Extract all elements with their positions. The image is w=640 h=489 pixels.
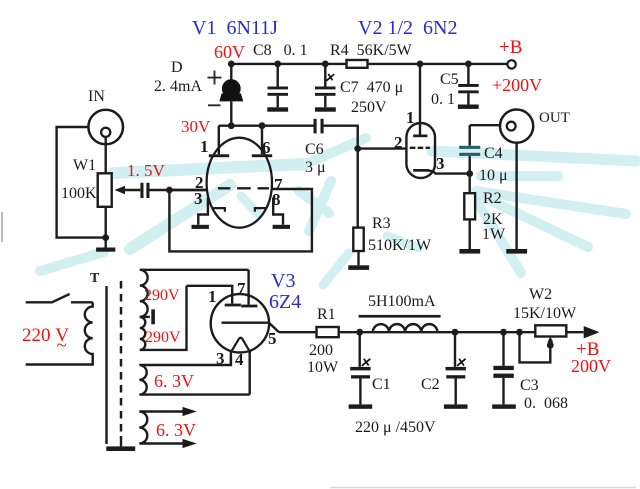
svg-text:R2: R2 (483, 190, 502, 207)
V3 pin 3 lead (230, 351, 232, 365)
svg-text:OUT: OUT (539, 110, 570, 126)
svg-text:200V: 200V (571, 356, 611, 376)
svg-text:3: 3 (436, 154, 445, 173)
svg-text:510K/1W: 510K/1W (368, 237, 432, 254)
capacitor C3 (493, 329, 568, 412)
svg-text:C4: C4 (484, 145, 503, 162)
V2 grid pin 2 dashed (410, 147, 430, 149)
transformer secondary 6.3V first (139, 357, 249, 394)
transformer center tap (140, 316, 150, 318)
svg-text:250V: 250V (351, 99, 387, 116)
svg-text:C7 470 μ: C7 470 μ (340, 79, 403, 96)
V2 anode pin 1 (406, 61, 427, 138)
svg-text:0. 1: 0. 1 (431, 91, 455, 108)
svg-text:~: ~ (57, 335, 67, 356)
svg-text:V3: V3 (271, 270, 295, 292)
svg-text:7: 7 (237, 279, 246, 298)
node V2 cathode junction (466, 170, 473, 177)
svg-text:10W: 10W (307, 359, 339, 376)
svg-text:W2: W2 (529, 286, 552, 303)
svg-text:C1: C1 (372, 376, 391, 393)
wire W1 bottom (104, 207, 106, 248)
svg-text:3 μ: 3 μ (305, 159, 326, 176)
svg-text:D: D (171, 59, 183, 76)
V3 anode pin 7 (237, 270, 257, 308)
V3 pin 4 lead (248, 351, 250, 395)
V2 cathode pin 3 (413, 154, 470, 174)
svg-text:100K: 100K (61, 185, 97, 202)
svg-text:10 μ: 10 μ (479, 167, 508, 184)
svg-text:3: 3 (194, 189, 203, 208)
svg-text:C8 0. 1: C8 0. 1 (253, 42, 308, 59)
ground W1 (96, 248, 115, 252)
svg-text:1W: 1W (482, 226, 506, 243)
ground OUT (506, 249, 527, 254)
wire 290V bottom to pin1 riser (140, 286, 187, 350)
resistor R1 (307, 306, 339, 376)
wire grid left lead (169, 189, 206, 191)
V3 filament (231, 338, 251, 353)
wire 290V top to pin7 (140, 269, 249, 271)
wire C4 to OUT (470, 124, 507, 126)
potentiometer W1 (61, 157, 140, 207)
diode D (154, 59, 243, 126)
wire junction to V2 grid (358, 147, 407, 149)
svg-text:6: 6 (262, 138, 271, 157)
svg-text:V1 6N11J: V1 6N11J (192, 17, 278, 39)
svg-text:5: 5 (268, 329, 277, 348)
transformer secondary 6.3V second (139, 412, 183, 444)
svg-text:220 μ /450V: 220 μ /450V (355, 419, 436, 436)
switch mains (26, 294, 93, 303)
V1 grid dashed (218, 187, 269, 189)
svg-text:30V: 30V (181, 117, 211, 136)
svg-text:R1: R1 (317, 306, 336, 323)
jack OUT (500, 110, 570, 143)
svg-text:0. 068: 0. 068 (524, 395, 568, 412)
wire IN center to W1 (104, 137, 106, 173)
svg-text:+200V: +200V (492, 75, 542, 95)
scan edge artifact line (1, 212, 3, 242)
capacitor C2 (421, 329, 466, 405)
node V2 grid junction (354, 145, 361, 152)
ground V1 left (192, 225, 209, 229)
resistor R4 (330, 42, 413, 68)
svg-text:2. 4mA: 2. 4mA (154, 78, 202, 95)
svg-text:15K/10W: 15K/10W (513, 305, 577, 322)
V3 anode pin 1 (187, 286, 241, 307)
svg-text:290V: 290V (145, 329, 181, 346)
capacitor C8 (253, 42, 308, 112)
transformer secondary 290V lower (140, 317, 146, 350)
svg-text:6Z4: 6Z4 (269, 291, 301, 313)
svg-text:290V: 290V (144, 287, 180, 304)
node 60V (228, 61, 235, 68)
svg-text:2: 2 (394, 133, 403, 152)
capacitor input coupling (140, 183, 206, 198)
svg-text:4: 4 (235, 350, 244, 369)
V1 anode pin 6 (252, 126, 272, 158)
wire B+ bottom rail (279, 331, 584, 333)
svg-text:C5: C5 (440, 71, 459, 88)
V1 anode pin 1 (200, 126, 229, 158)
transformer secondary 290V upper (140, 270, 148, 317)
svg-text:V2 1/2 6N2: V2 1/2 6N2 (358, 17, 457, 39)
ground C3 (492, 404, 516, 408)
svg-text:C6: C6 (305, 141, 324, 158)
svg-text:5H100mA: 5H100mA (368, 293, 436, 310)
wire IN shell loop (57, 127, 106, 238)
svg-text:1. 5V: 1. 5V (127, 161, 166, 180)
svg-text:60V: 60V (214, 42, 245, 62)
V3 cathode line pin 5 (222, 323, 280, 333)
svg-text:200: 200 (309, 342, 333, 359)
ground V1 right (273, 225, 290, 229)
transformer primary winding (26, 302, 93, 364)
svg-text:R4 56K/5W: R4 56K/5W (330, 42, 413, 59)
svg-text:W1: W1 (73, 157, 96, 174)
transformer T core (90, 271, 121, 446)
wire grid right lead and loop (169, 189, 312, 251)
ground transformer core (106, 446, 135, 451)
choke 5H100mA (359, 293, 441, 332)
svg-text:8: 8 (272, 190, 281, 209)
ground C1 (349, 404, 373, 408)
svg-text:C2: C2 (421, 376, 440, 393)
ground R3 (348, 265, 369, 270)
terminal +B (507, 60, 515, 68)
node grid junction (166, 187, 173, 194)
svg-text:T: T (90, 271, 100, 286)
ground R2 (459, 249, 480, 254)
V1 cathode pin 3 (194, 189, 225, 225)
resistor R2 (464, 174, 506, 249)
wire OUT shell down (515, 143, 517, 249)
resistor R3 (353, 149, 432, 266)
capacitor C5 (431, 61, 479, 109)
faint scan line bottom (330, 487, 636, 489)
svg-text:6. 3V: 6. 3V (156, 420, 196, 440)
tube V1 envelope (207, 138, 272, 228)
capacitor C1 (350, 329, 390, 405)
V1 cathode pin 8 (255, 190, 283, 225)
svg-text:1: 1 (406, 108, 415, 127)
svg-text:6. 3V: 6. 3V (154, 371, 194, 391)
tube V3 envelope (211, 294, 269, 352)
svg-text:C3: C3 (520, 377, 539, 394)
capacitor C6 (305, 119, 358, 176)
svg-text:1: 1 (200, 137, 209, 156)
capacitor C4 (459, 125, 507, 184)
tube V2 envelope (406, 123, 435, 178)
ground C2 (444, 404, 468, 408)
capacitor C7 (315, 61, 403, 117)
node 30V plate rail (219, 124, 314, 126)
terminal +B 200V arrow (584, 326, 600, 338)
svg-text:IN: IN (88, 88, 105, 105)
wire top B+ rail (231, 63, 507, 65)
svg-text:1: 1 (208, 287, 217, 306)
jack IN (88, 88, 123, 144)
svg-text:+B: +B (499, 37, 522, 58)
potentiometer W2 (513, 286, 577, 362)
svg-text:R3: R3 (372, 215, 391, 232)
